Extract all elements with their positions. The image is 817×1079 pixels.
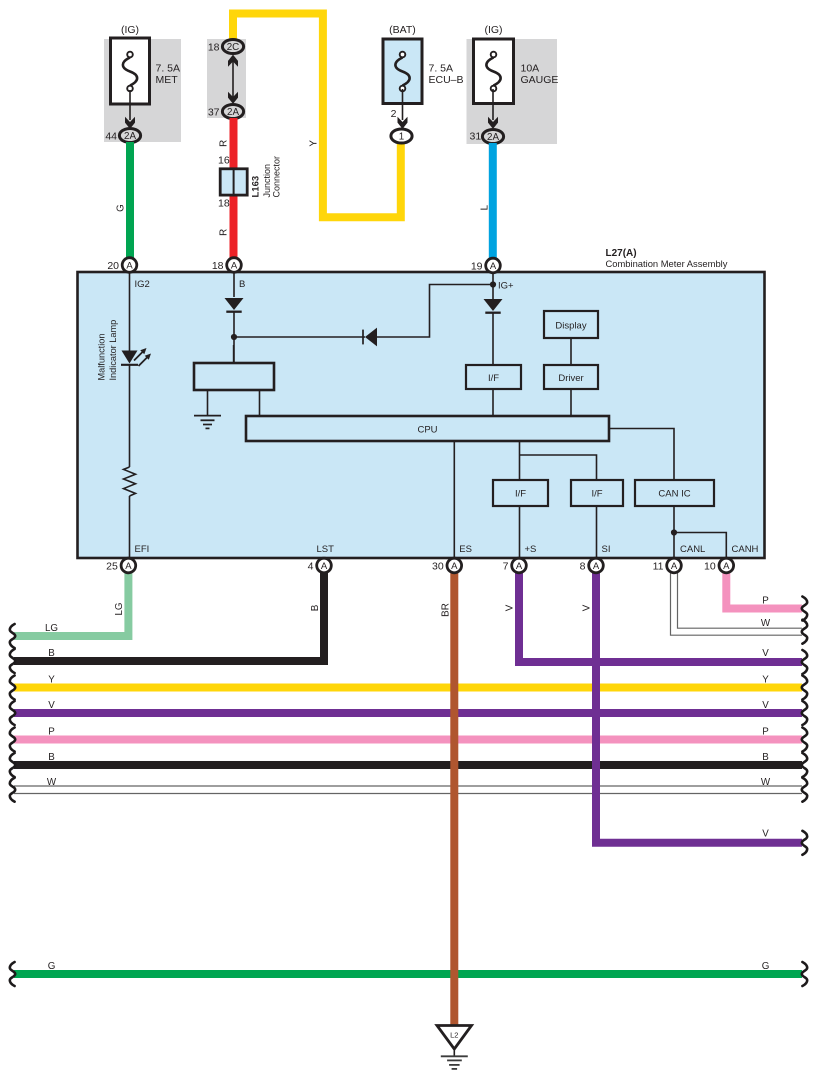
svg-text:B: B <box>762 752 769 763</box>
svg-text:V: V <box>582 604 593 611</box>
svg-text:L2: L2 <box>450 1031 458 1040</box>
svg-text:7. 5A: 7. 5A <box>429 63 454 75</box>
svg-text:19: 19 <box>471 260 483 272</box>
svg-text:CANH: CANH <box>732 544 759 555</box>
svg-text:Indicator Lamp: Indicator Lamp <box>108 320 118 381</box>
svg-text:LST: LST <box>317 544 335 555</box>
svg-text:EFI: EFI <box>135 544 150 555</box>
svg-text:W: W <box>761 618 771 629</box>
svg-text:I/F: I/F <box>591 489 602 500</box>
svg-text:W: W <box>47 777 57 788</box>
svg-text:B: B <box>48 752 55 763</box>
svg-text:I/F: I/F <box>515 489 526 500</box>
svg-text:LG: LG <box>45 623 58 634</box>
svg-text:(IG): (IG) <box>121 24 139 36</box>
svg-text:Display: Display <box>555 321 586 332</box>
svg-text:37: 37 <box>208 107 220 119</box>
svg-text:V: V <box>505 604 516 611</box>
svg-text:18: 18 <box>208 42 220 54</box>
svg-text:2A: 2A <box>227 107 239 118</box>
svg-text:4: 4 <box>308 561 314 573</box>
svg-text:G: G <box>116 204 127 212</box>
svg-text:31: 31 <box>470 131 482 143</box>
svg-text:ES: ES <box>459 544 472 555</box>
svg-text:B: B <box>48 648 55 659</box>
svg-text:7: 7 <box>503 561 509 573</box>
svg-text:2A: 2A <box>124 131 136 142</box>
svg-text:Y: Y <box>48 675 55 686</box>
svg-text:Connector: Connector <box>272 156 282 198</box>
svg-text:V: V <box>48 700 55 711</box>
svg-text:ECU–B: ECU–B <box>429 74 464 86</box>
svg-text:+S: +S <box>525 544 537 555</box>
svg-text:Y: Y <box>762 675 769 686</box>
svg-text:11: 11 <box>653 561 664 573</box>
svg-text:20: 20 <box>107 260 119 272</box>
svg-text:L: L <box>479 204 490 210</box>
svg-text:2: 2 <box>391 108 397 120</box>
svg-text:P: P <box>48 727 55 738</box>
svg-text:16: 16 <box>218 155 230 167</box>
svg-text:10A: 10A <box>521 63 540 75</box>
svg-text:W: W <box>761 777 771 788</box>
svg-text:G: G <box>762 961 770 972</box>
svg-text:V: V <box>762 648 769 659</box>
svg-text:(IG): (IG) <box>484 24 502 36</box>
svg-text:7. 5A: 7. 5A <box>156 63 181 75</box>
svg-text:B: B <box>239 279 245 290</box>
svg-text:IG+: IG+ <box>498 281 514 292</box>
svg-text:BR: BR <box>441 603 452 617</box>
svg-text:R: R <box>219 140 230 147</box>
svg-text:IG2: IG2 <box>135 279 150 290</box>
svg-text:25: 25 <box>106 561 118 573</box>
svg-text:MET: MET <box>156 74 179 86</box>
svg-text:30: 30 <box>432 561 444 573</box>
svg-text:CPU: CPU <box>417 425 437 436</box>
svg-text:GAUGE: GAUGE <box>521 74 559 86</box>
svg-text:18: 18 <box>212 260 224 272</box>
svg-text:Junction: Junction <box>262 164 272 198</box>
svg-text:L163: L163 <box>251 176 262 198</box>
svg-text:SI: SI <box>602 544 611 555</box>
svg-text:P: P <box>762 727 769 738</box>
svg-text:10: 10 <box>704 561 716 573</box>
svg-text:V: V <box>762 829 769 840</box>
svg-text:Malfunction: Malfunction <box>97 334 107 381</box>
svg-text:Driver: Driver <box>558 373 583 384</box>
svg-text:2A: 2A <box>487 132 499 143</box>
svg-text:Combination Meter Assembly: Combination Meter Assembly <box>606 258 728 269</box>
svg-text:CANL: CANL <box>680 544 705 555</box>
svg-text:2C: 2C <box>227 42 240 53</box>
svg-text:V: V <box>762 700 769 711</box>
svg-text:18: 18 <box>218 198 230 210</box>
svg-text:1: 1 <box>399 132 404 143</box>
svg-text:Y: Y <box>309 140 320 147</box>
svg-text:I/F: I/F <box>488 373 499 384</box>
svg-text:P: P <box>762 596 769 607</box>
svg-text:G: G <box>48 961 56 972</box>
svg-text:CAN IC: CAN IC <box>658 489 690 500</box>
svg-text:B: B <box>310 604 321 611</box>
svg-text:8: 8 <box>580 561 586 573</box>
svg-text:(BAT): (BAT) <box>389 24 416 36</box>
svg-text:LG: LG <box>114 602 125 615</box>
svg-text:R: R <box>219 229 230 236</box>
svg-text:44: 44 <box>105 131 117 143</box>
